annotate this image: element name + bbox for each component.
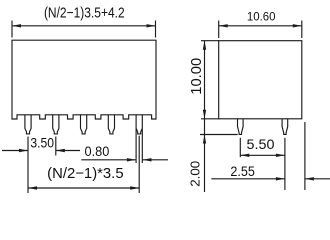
- svg-text:(N/2−1)*3.5: (N/2−1)*3.5: [47, 166, 123, 182]
- svg-text:10.60: 10.60: [247, 10, 276, 24]
- dimension 10.00 left of right view: [189, 41, 219, 119]
- left view body outline: [12, 40, 156, 119]
- svg-text:(N/2−1)3.5+4.2: (N/2−1)3.5+4.2: [44, 5, 125, 21]
- svg-text:3.50: 3.50: [30, 134, 54, 150]
- dimension (N/2-1)3.5+4.2 top of left view: [12, 5, 156, 37]
- dimension 5.50 (pin spacing, right view): [240, 137, 285, 190]
- pin 4 (left view): [108, 115, 114, 134]
- svg-text:0.80: 0.80: [85, 144, 110, 159]
- svg-text:2.55: 2.55: [230, 164, 255, 179]
- dimension (N/2-1)*3.5 bottom of left view: [28, 166, 139, 190]
- dimension 3.50 (pin pitch, left view): [2, 134, 80, 193]
- pin 5 center extension line: [138, 136, 140, 193]
- pin B (right view): [282, 119, 288, 135]
- svg-text:2.00: 2.00: [188, 161, 203, 187]
- dimension 0.80 (pin width, left view): [81, 144, 168, 161]
- pin 2 (left view): [53, 115, 59, 134]
- pin 3 (left view): [81, 115, 87, 134]
- dimension 2.55 (pin to edge, right view): [211, 122, 330, 190]
- pin A (right view): [238, 119, 244, 135]
- pin 5 (left view, edge lines extended as extension lines): [136, 115, 142, 163]
- dimension 2.00 (pin length, right view): [188, 119, 238, 192]
- right view body outline: [219, 41, 302, 119]
- dimension 10.60 top of right view: [219, 10, 302, 38]
- svg-text:10.00: 10.00: [189, 58, 205, 95]
- pin 1 (left view): [25, 115, 31, 134]
- svg-text:5.50: 5.50: [247, 137, 275, 152]
